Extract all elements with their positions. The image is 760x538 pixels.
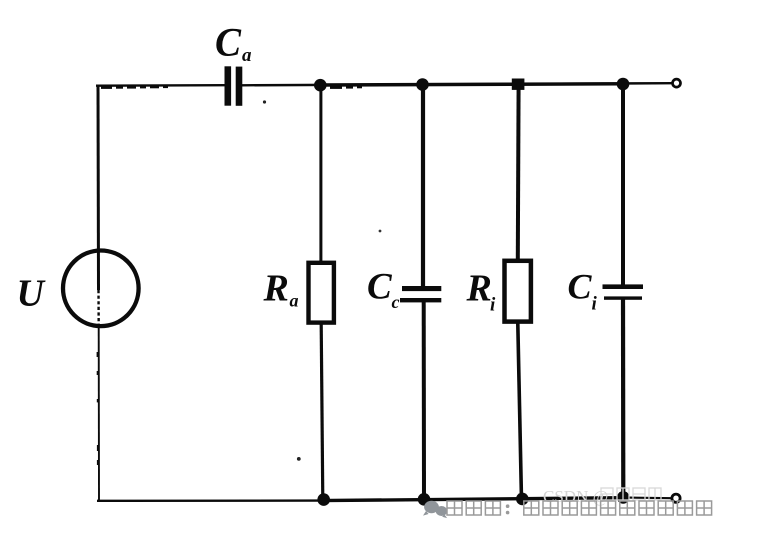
watermark WeChat icon (two chat bubbles) xyxy=(423,501,447,518)
svg-text:C: C xyxy=(215,20,242,65)
wire: left vertical, dotted part inside source xyxy=(97,290,100,327)
svg-text:a: a xyxy=(242,45,252,66)
wire: left vertical below source to bottom wire xyxy=(98,327,100,501)
wire: Ci branch, top segment xyxy=(621,84,625,285)
stray scan speck above Cc label xyxy=(379,230,382,233)
node A' (bottom junction of Ra branch) xyxy=(317,493,330,506)
wire: thicker stretch of top bus between node A and node D xyxy=(320,84,623,85)
node B' (bottom junction of Cc branch) xyxy=(418,493,431,506)
node D (top junction of Ci branch) xyxy=(617,78,630,91)
wire: top horizontal, right segment from Ca to output terminal xyxy=(242,83,673,85)
label C_i xyxy=(568,267,598,315)
resistor R_i (box) xyxy=(505,261,531,322)
capacitor C_a (series, vertical plates) xyxy=(225,66,243,106)
label C_c xyxy=(367,267,400,313)
wire: left vertical from top wire down to source xyxy=(97,85,101,291)
svg-text:i: i xyxy=(490,295,496,316)
svg-text:a: a xyxy=(290,291,299,311)
wire: Ra branch, bottom segment xyxy=(321,324,323,500)
wire: bottom horizontal bus xyxy=(97,499,320,502)
wire: Ri branch, bottom segment xyxy=(518,324,522,501)
svg-text:R: R xyxy=(466,268,492,310)
wire: top horizontal, left segment from source to Ca xyxy=(96,84,225,87)
svg-text:c: c xyxy=(392,292,400,312)
scan artifact ticks on lower left wire xyxy=(97,352,100,465)
svg-text:i: i xyxy=(592,294,598,315)
output terminal, bottom (open circle) xyxy=(672,494,680,502)
label C_a xyxy=(215,20,252,67)
svg-text:C: C xyxy=(367,267,393,308)
capacitor C_c (horizontal plates) xyxy=(400,286,441,302)
node B (top junction of Cc branch) xyxy=(416,78,429,91)
watermark text: 公众号：实在太懒于是不想取名 (drawn glyph blocks) xyxy=(447,501,712,515)
wire: Cc branch, bottom segment xyxy=(422,302,426,500)
svg-text:CSDN @: CSDN @ xyxy=(543,487,608,506)
capacitor C_i (horizontal plates) xyxy=(603,284,644,299)
wire: Ri branch, top segment xyxy=(516,84,521,259)
faint CSDN watermark text xyxy=(543,487,661,506)
node D' (bottom junction of Ci branch) xyxy=(617,491,630,504)
output terminal, top (open circle) xyxy=(673,79,681,87)
resistor R_a (box) xyxy=(309,263,334,323)
wire: bottom horizontal bus right part xyxy=(320,498,623,501)
svg-text:C: C xyxy=(568,267,593,307)
svg-text:R: R xyxy=(263,268,289,310)
wire: Cc branch, top segment xyxy=(421,85,425,288)
wire: bottom lead to output terminal xyxy=(623,496,672,499)
node A (top junction of Ra branch) xyxy=(314,79,327,92)
node C' (bottom junction of Ri branch) xyxy=(516,493,529,506)
stray scan speck left of Ra bottom xyxy=(297,457,301,461)
wire: Ra branch, top segment xyxy=(319,85,322,262)
wire: Ci branch, bottom segment xyxy=(621,300,625,499)
label R_a xyxy=(263,268,299,311)
scan artifact dashes under top wire near left corner xyxy=(101,86,362,89)
voltage source U (circle) xyxy=(63,250,139,326)
svg-text:U: U xyxy=(17,273,47,315)
label R_i xyxy=(466,268,497,316)
stray scan speck near Ca xyxy=(263,100,266,103)
node C (top junction of Ri branch, square-ish blob) xyxy=(512,79,525,90)
